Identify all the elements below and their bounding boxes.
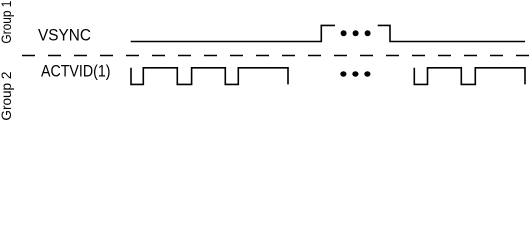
node ACTVID ellipsis dot 1	[340, 71, 346, 76]
node ACTVID ellipsis dot 2	[352, 71, 358, 76]
node VSYNC ellipsis dot 1	[341, 30, 347, 36]
svg-text:ACTVID(1): ACTVID(1)	[41, 63, 111, 81]
node VSYNC ellipsis dot 3	[365, 30, 371, 36]
svg-text:VSYNC: VSYNC	[38, 27, 91, 45]
wire VSYNC waveform right: high segment, falling edge, low	[378, 25, 525, 41]
wire ACTVID waveform left group of pulses	[131, 68, 288, 85]
wire VSYNC waveform left: low, rising edge, high segment	[131, 25, 335, 41]
svg-text:Group 2: Group 2	[0, 71, 14, 120]
wire ACTVID waveform right group of pulses	[414, 68, 525, 85]
dashed group separator line	[22, 55, 530, 57]
svg-text:Group 1: Group 1	[0, 0, 14, 43]
node ACTVID ellipsis dot 3	[364, 71, 370, 76]
node VSYNC ellipsis dot 2	[353, 30, 359, 36]
